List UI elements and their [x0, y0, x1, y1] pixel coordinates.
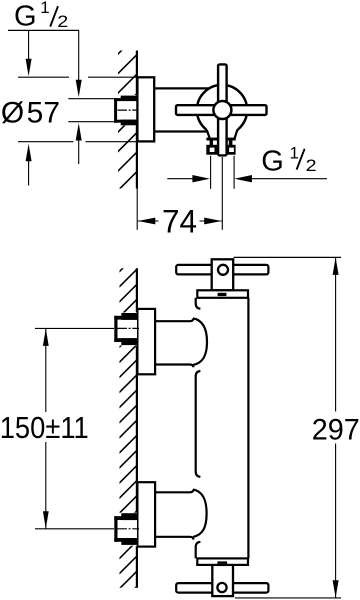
- svg-text:1: 1: [290, 143, 299, 162]
- union nut bottom: [114, 513, 139, 546]
- svg-text:74: 74: [162, 204, 197, 240]
- svg-text:G: G: [14, 1, 37, 33]
- extension line flange top: [18, 76, 69, 78]
- hub circle (top view): [213, 101, 231, 119]
- hub top: [212, 259, 234, 290]
- handle bar top: [176, 265, 268, 275]
- union bell top: [193, 318, 207, 365]
- svg-text:1: 1: [40, 0, 49, 17]
- handle bar horizontal (top view): [176, 105, 267, 115]
- handle bar vertical (top view): [218, 64, 227, 155]
- union bell bottom: [193, 489, 207, 537]
- label G 1/2 top-left: [8, 0, 79, 33]
- svg-text:150±11: 150±11: [0, 410, 89, 445]
- extension line flange bottom: [18, 141, 74, 143]
- hub circle bottom: [217, 583, 226, 592]
- pipe top: [155, 318, 193, 367]
- ext line 297 top: [234, 256, 341, 258]
- hub circle top: [218, 265, 228, 275]
- valve circle: [197, 85, 247, 135]
- wall line (front view): [136, 268, 138, 587]
- cap bottom: [197, 558, 248, 565]
- union centerline bottom: [35, 528, 115, 530]
- dim 297: [312, 257, 360, 597]
- flange on wall (top view): [137, 77, 154, 141]
- tick bottom: [217, 561, 227, 564]
- union centerline top: [35, 327, 115, 329]
- pipe bottom: [155, 490, 193, 540]
- svg-text:297: 297: [312, 413, 360, 446]
- wall hatching (front view): [118, 254, 137, 600]
- svg-text:G: G: [261, 145, 284, 177]
- escutcheon bottom: [137, 482, 155, 546]
- outlet centerline: [221, 157, 223, 230]
- dim 150±11: [0, 328, 89, 528]
- outlet extension lines: [210, 156, 212, 189]
- wall hatching (top view): [117, 35, 137, 192]
- ext line 297 bottom: [235, 597, 341, 599]
- dim 74: [138, 204, 222, 240]
- bonnet below circle: [206, 127, 237, 146]
- handle bar bottom: [176, 583, 268, 593]
- hub bottom: [212, 565, 233, 596]
- outlet thread blocks: [206, 145, 235, 155]
- leader G1/2 outlet: [167, 143, 327, 182]
- union nut top: [114, 313, 139, 346]
- svg-text:2: 2: [306, 156, 317, 175]
- dim stems x28.6 (flange dia): [26, 30, 32, 185]
- tick top: [218, 293, 227, 296]
- wall extension line down: [136, 189, 138, 230]
- dim stems x78.7 (thread dia): [76, 30, 82, 164]
- body tube (top view): [154, 87, 210, 89]
- svg-text:2: 2: [57, 12, 68, 31]
- wall union nut (top view): [68, 95, 139, 126]
- svg-text:Ø57: Ø57: [1, 96, 60, 129]
- body: [196, 298, 249, 559]
- escutcheon top: [137, 309, 155, 374]
- cap top: [197, 290, 248, 298]
- wall line (top view): [136, 51, 138, 189]
